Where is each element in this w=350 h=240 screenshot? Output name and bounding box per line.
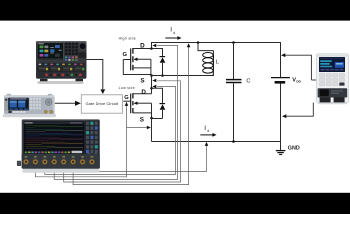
node A: high-side drain junction [150, 47, 153, 50]
svg-text:I: I [170, 27, 172, 34]
svg-text:D: D [140, 43, 145, 50]
current arrow Io (points right) [165, 37, 178, 39]
svg-text:GND: GND [288, 145, 300, 151]
svg-text:DD: DD [296, 80, 301, 84]
instrument: 4-channel DC power supply (top left) [36, 41, 87, 84]
svg-text:L: L [216, 59, 219, 65]
svg-text:S: S [140, 117, 144, 124]
node: capacitor top junction [232, 41, 235, 44]
transistor Q1 high-side MOSFET [123, 59, 130, 61]
wire: probe source-sense branch (right arrow at Q2 source) [127, 127, 147, 129]
instrument: oscilloscope (bottom left) [17, 119, 100, 172]
svg-text:G: G [123, 52, 128, 58]
svg-text:d: d [207, 129, 209, 133]
wire: probe W4 to switch node (left arrow) [64, 81, 181, 182]
diode D1 freewheeling (high side) [152, 49, 163, 57]
current arrow Id (points right) [200, 134, 213, 136]
wire: function generator to gate driver (right arrow) [55, 102, 76, 104]
capacitor C [233, 43, 235, 80]
wire: PSU- lead to VDD (lower, arrow into battery) [283, 103, 313, 117]
svg-text:D: D [141, 89, 146, 96]
node: capacitor bottom junction [232, 140, 235, 143]
svg-text:C: C [246, 78, 250, 84]
wire: PSU+ lead to VDD (upper, arrow into battery) [282, 55, 311, 80]
diode D2 freewheeling (low side) [152, 88, 163, 103]
wire: probe W3 to high-side drain (left arrow) [54, 46, 177, 180]
inductor L coil [203, 53, 213, 58]
node: low-side drain / diode D2 cathode tap [150, 87, 153, 90]
block: Gate Drive Circuit [81, 95, 122, 113]
ground symbol [276, 150, 286, 152]
node: low-side source junction [150, 117, 153, 120]
wire: switch node down to low-side drain [151, 76, 153, 94]
black letterbox bottom bar [0, 193, 350, 214]
wire: low-side source down to ground rail [151, 118, 153, 142]
wire: switch node rail to inductor [151, 75, 213, 77]
wire: diode D2 anode to source node [152, 118, 163, 120]
wire: probe W5 to DC bus (up arrow) [73, 47, 189, 185]
wire: DC power supply to gate driver (down arrow) [87, 60, 103, 90]
wire: inductor bottom lead to switch rail [212, 71, 215, 76]
svg-text:S: S [140, 78, 144, 85]
transistor Q2 low-side MOSFET (DUT) [123, 100, 130, 102]
black letterbox top bar [0, 0, 350, 21]
wire: high-side gate-source tie [123, 60, 151, 75]
instrument: function/arbitrary waveform generator (mid left) [3, 94, 56, 117]
node: switch-node junction (S of Q1) [150, 74, 153, 77]
svg-text:High side: High side [119, 37, 136, 41]
node: diode D1 anode on switch rail [161, 74, 164, 77]
instrument: DC source/power supply (right) [316, 54, 348, 104]
node: bus left corner down to high-side drain [151, 42, 153, 49]
svg-text:d: d [173, 31, 175, 35]
svg-text:Low side: Low side [119, 86, 135, 90]
svg-text:Gate Drive Circuit: Gate Drive Circuit [85, 101, 119, 106]
wire: top DC bus rail [152, 42, 282, 44]
wire: probe W1 to low-side gate (up arrow) + source sense branch [35, 106, 126, 177]
wire: probe W6 to ground rail (up arrow) [83, 146, 207, 171]
wire: bottom ground rail [152, 141, 282, 143]
wire: inductor top lead from bus [197, 41, 200, 44]
svg-text:G: G [124, 95, 129, 101]
svg-text:I: I [204, 125, 206, 132]
battery VDD source [280, 43, 282, 78]
wire: probe W2 to low-side drain (left arrow) [45, 87, 176, 175]
